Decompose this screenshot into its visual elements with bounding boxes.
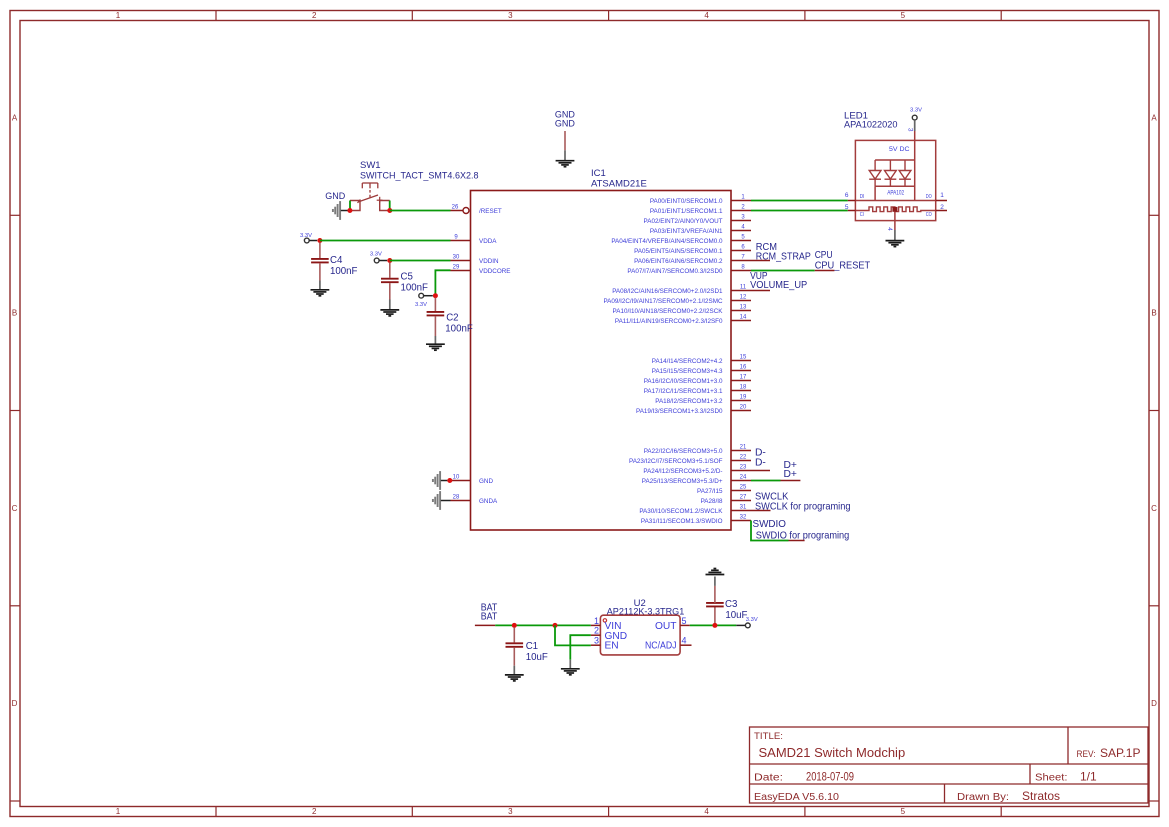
SW1 lever: [358, 195, 379, 203]
ground at LED1: [886, 241, 905, 247]
svg-text:C: C: [1151, 504, 1157, 513]
svg-text:VOLUME_UP: VOLUME_UP: [750, 280, 807, 291]
svg-text:C4: C4: [330, 255, 343, 266]
svg-text:PA22/I2C/I6/SERCOM3+5.0: PA22/I2C/I6/SERCOM3+5.0: [644, 448, 723, 455]
junction C2 top: [433, 293, 438, 298]
row labels left: [12, 113, 18, 708]
IC1 right pin names: [603, 198, 723, 525]
voltage regulator U2 body: [600, 615, 680, 655]
svg-text:4: 4: [704, 807, 709, 816]
row tick marks left: [10, 215, 20, 801]
svg-text:VDDIN: VDDIN: [479, 258, 499, 265]
svg-text:PA03/EINT3/VREFA/AIN1: PA03/EINT3/VREFA/AIN1: [650, 228, 723, 235]
svg-text:PA05/EINT5/AIN5/SERCOM0.1: PA05/EINT5/AIN5/SERCOM0.1: [634, 248, 723, 255]
svg-text:SAMD21 Switch Modchip: SAMD21 Switch Modchip: [759, 745, 906, 760]
svg-text:PA25/I13/SERCOM3+5.3/D+: PA25/I13/SERCOM3+5.3/D+: [642, 478, 723, 485]
ground signal at IC pin 10: [433, 471, 440, 490]
switch SW1: [360, 160, 479, 182]
junction SW1 pin2: [387, 208, 392, 213]
GND net flag top center: [555, 110, 576, 161]
svg-text:C3: C3: [725, 599, 737, 610]
svg-text:10uF: 10uF: [725, 610, 747, 621]
svg-text:PA11/I11/AIN19/SERCOM0+2.3/I2S: PA11/I11/AIN19/SERCOM0+2.3/I2SF0: [615, 318, 723, 325]
capacitor C3: [706, 577, 747, 624]
junction pin 10: [447, 478, 452, 483]
LED diode 2: [885, 160, 897, 186]
svg-text:30: 30: [453, 255, 460, 261]
LED1 pin 3 wire: [914, 131, 916, 201]
3.3V terminal at C5: [370, 251, 387, 263]
wire OUT: [690, 624, 737, 626]
svg-text:PA06/EINT6/AIN6/SERCOM0.2: PA06/EINT6/AIN6/SERCOM0.2: [634, 258, 723, 265]
wire EN loop: [555, 625, 591, 645]
svg-text:2: 2: [594, 626, 599, 636]
svg-text:3: 3: [508, 11, 513, 20]
svg-text:1: 1: [940, 192, 944, 199]
svg-text:B: B: [1151, 309, 1156, 318]
svg-text:PA28/I8: PA28/I8: [701, 498, 723, 505]
svg-text:C5: C5: [401, 271, 413, 282]
svg-text:PA02/EINT2/AIN0/Y0/VOUT: PA02/EINT2/AIN0/Y0/VOUT: [644, 218, 723, 225]
svg-text:11: 11: [740, 285, 747, 291]
svg-text:PA14/I14/SERCOM2+4.2: PA14/I14/SERCOM2+4.2: [652, 358, 723, 365]
junction C5 top: [387, 258, 392, 263]
svg-text:ATSAMD21E: ATSAMD21E: [591, 179, 647, 190]
svg-text:15: 15: [740, 355, 747, 361]
svg-text:CI: CI: [860, 212, 864, 218]
svg-text:29: 29: [453, 265, 460, 271]
LED diode 1: [869, 160, 881, 186]
LED1 CO stub: [936, 210, 947, 212]
svg-text:EasyEDA V5.6.10: EasyEDA V5.6.10: [754, 792, 839, 803]
svg-text:100nF: 100nF: [330, 266, 358, 277]
svg-text:2018-07-09: 2018-07-09: [806, 772, 854, 784]
wire GND pin2: [570, 635, 591, 660]
svg-text:4: 4: [886, 227, 893, 231]
svg-text:GND: GND: [555, 119, 576, 129]
LED1 DI stub: [848, 200, 856, 202]
3.3V terminal at OUT: [745, 617, 757, 628]
LED1 DO stub: [936, 200, 947, 202]
title block text: [754, 731, 1140, 803]
title block: [750, 727, 1149, 803]
svg-text:18: 18: [740, 385, 747, 391]
wire BAT to VIN: [495, 624, 591, 626]
U2 pin stubs: [591, 625, 692, 645]
column tick marks bottom: [216, 807, 1001, 817]
svg-text:PA27/I15: PA27/I15: [697, 488, 723, 495]
svg-text:3: 3: [594, 636, 599, 646]
svg-text:3.3V: 3.3V: [910, 108, 922, 114]
wire black to pin 28: [441, 500, 451, 502]
ground at C5: [380, 310, 399, 316]
svg-text:PA31/I11/SECOM1.3/SWDIO: PA31/I11/SECOM1.3/SWDIO: [641, 518, 723, 525]
capacitor C1: [506, 627, 548, 674]
capacitor C5: [381, 263, 428, 310]
svg-text:1: 1: [594, 616, 599, 626]
svg-text:GND: GND: [479, 478, 493, 485]
svg-text:GNDA: GNDA: [479, 498, 498, 505]
svg-text:A: A: [1151, 113, 1157, 122]
svg-text:EN: EN: [605, 641, 619, 652]
wire pin 2 to LED CI: [751, 210, 848, 212]
svg-text:/RESET: /RESET: [479, 208, 502, 215]
wire pin 24 D+: [751, 480, 800, 482]
junction C3 bottom: [712, 623, 717, 628]
svg-text:GND: GND: [325, 191, 346, 201]
svg-text:D+: D+: [784, 469, 797, 480]
LED1 resistor zigzag CI-CO: [855, 207, 935, 212]
svg-text:PA07/I7/AIN7/SERCOM0.3/I2SD0: PA07/I7/AIN7/SERCOM0.3/I2SD0: [627, 268, 723, 275]
svg-text:TITLE:: TITLE:: [754, 731, 783, 741]
svg-text:1: 1: [116, 11, 121, 20]
wire black to 3.3V terminal: [736, 624, 745, 626]
svg-text:B: B: [12, 309, 17, 318]
SW1 left contact: [350, 201, 360, 211]
svg-text:PA00/EINT0/SERCOM1.0: PA00/EINT0/SERCOM1.0: [650, 198, 723, 205]
SW1 fixed contact mark: [377, 197, 383, 203]
svg-text:31: 31: [740, 505, 747, 511]
svg-text:Sheet:: Sheet:: [1035, 773, 1068, 784]
svg-text:SAP.1P: SAP.1P: [1100, 746, 1140, 760]
ground above C3: [706, 569, 725, 575]
svg-text:Drawn By:: Drawn By:: [957, 792, 1009, 803]
svg-text:100nF: 100nF: [401, 282, 429, 293]
svg-text:PA19/I3/SERCOM1+3.3/I2SD0: PA19/I3/SERCOM1+3.3/I2SD0: [636, 408, 723, 415]
svg-text:VDDA: VDDA: [479, 238, 497, 245]
svg-text:23: 23: [740, 465, 747, 471]
LED1 gnd stem gray: [894, 230, 896, 240]
ground signal at SW1: [333, 201, 340, 220]
svg-text:26: 26: [452, 205, 459, 211]
capacitor C4: [311, 243, 357, 290]
svg-text:6: 6: [845, 192, 849, 199]
LED1 center junction square: [892, 207, 897, 212]
3.3V terminal at LED1: [910, 108, 922, 131]
wire black gnd to junction: [341, 210, 348, 212]
svg-text:16: 16: [740, 365, 747, 371]
svg-text:1/1: 1/1: [1080, 770, 1097, 784]
column labels top: [116, 11, 906, 20]
wire 3.3V to VDDA pin 9: [320, 240, 451, 242]
LED1 CI stub: [848, 210, 856, 212]
net label BAT: [481, 603, 498, 623]
svg-text:PA09/I2C/I9/AIN17/SERCOM0+2.1/: PA09/I2C/I9/AIN17/SERCOM0+2.1/I2SMC: [603, 298, 723, 305]
wire black to pin 10: [441, 480, 448, 482]
svg-text:CO: CO: [926, 212, 932, 218]
svg-text:3.3V: 3.3V: [746, 617, 758, 623]
3.3V terminal at C4: [300, 233, 317, 243]
svg-text:4: 4: [704, 11, 709, 20]
svg-text:Stratos: Stratos: [1022, 789, 1060, 803]
U2 pin1 indicator: [603, 619, 606, 622]
SW1 right contact: [380, 201, 390, 211]
svg-text:PA30/I10/SECOM1.2/SWCLK: PA30/I10/SECOM1.2/SWCLK: [639, 508, 723, 515]
svg-text:21: 21: [740, 445, 747, 451]
svg-text:DO: DO: [926, 194, 932, 200]
svg-text:OUT: OUT: [655, 621, 677, 632]
ground at C1: [505, 675, 524, 681]
svg-text:24: 24: [740, 475, 747, 481]
svg-text:C1: C1: [526, 641, 538, 652]
svg-text:3.3V: 3.3V: [415, 302, 427, 308]
svg-text:5: 5: [682, 616, 687, 626]
svg-text:REV:: REV:: [1077, 749, 1096, 760]
svg-text:PA23/I2C/I7/SERCOM3+5.1/SOF: PA23/I2C/I7/SERCOM3+5.1/SOF: [629, 458, 723, 465]
LED1 labels: [844, 111, 898, 131]
IC1 left pin names: [479, 208, 511, 505]
svg-text:22: 22: [740, 455, 747, 461]
svg-text:3: 3: [508, 807, 513, 816]
LED1 DI-DO row line: [855, 200, 935, 202]
svg-text:12: 12: [740, 295, 747, 301]
junction C1 top: [512, 623, 517, 628]
wire BAT stub red: [475, 624, 495, 626]
3.3V terminal at C2: [415, 293, 433, 307]
capacitor C2: [427, 298, 473, 344]
LED1 cathode bus: [875, 185, 915, 187]
wire pin 32 SWDIO: [751, 521, 805, 541]
LED1 pin 4 lead down: [894, 212, 896, 230]
ground signal at IC pin 28: [433, 491, 440, 510]
svg-text:SWITCH_TACT_SMT4.6X2.8: SWITCH_TACT_SMT4.6X2.8: [360, 171, 479, 182]
svg-text:32: 32: [740, 515, 747, 521]
svg-text:PA15/I15/SERCOM3+4.3: PA15/I15/SERCOM3+4.3: [652, 368, 723, 375]
svg-text:100nF: 100nF: [445, 324, 473, 335]
LED diode 3: [899, 160, 911, 186]
svg-text:2: 2: [312, 11, 317, 20]
svg-text:14: 14: [740, 315, 747, 321]
svg-text:20: 20: [740, 405, 747, 411]
svg-text:SW1: SW1: [360, 160, 381, 171]
svg-text:3: 3: [906, 128, 913, 132]
op-amp U1 : IC1 body: [471, 191, 732, 531]
svg-text:10: 10: [453, 475, 460, 481]
wire 3.3V to VDDIN pin 30: [390, 260, 451, 262]
IC1 right pin numbers: [740, 195, 747, 521]
svg-text:13: 13: [740, 305, 747, 311]
svg-text:5: 5: [901, 11, 906, 20]
svg-text:SWDIO: SWDIO: [753, 519, 787, 530]
svg-text:NC/ADJ: NC/ADJ: [645, 641, 677, 652]
svg-text:C: C: [12, 504, 18, 513]
U2 pin names: [605, 621, 677, 652]
svg-text:28: 28: [453, 495, 460, 501]
svg-text:1: 1: [116, 807, 121, 816]
LED1 anode bus: [875, 159, 915, 161]
wire pin 1 to LED DI: [751, 200, 848, 202]
svg-text:D: D: [1151, 699, 1157, 708]
row labels right: [1151, 113, 1157, 708]
ground top center: [556, 161, 575, 167]
LED1 pin numbers: [845, 192, 944, 211]
LED1 bus drop: [874, 186, 876, 200]
svg-text:SWCLK for programing: SWCLK for programing: [755, 502, 851, 513]
svg-text:19: 19: [740, 395, 747, 401]
svg-text:PA01/EINT1/SERCOM1.1: PA01/EINT1/SERCOM1.1: [650, 208, 723, 215]
svg-text:27: 27: [740, 495, 747, 501]
IC1 reference label: [591, 168, 647, 190]
LED1 pin texts: [860, 194, 932, 218]
svg-text:3.3V: 3.3V: [370, 251, 382, 257]
svg-text:5V DC: 5V DC: [889, 146, 910, 153]
svg-text:PA16/I2C/I0/SERCOM1+3.0: PA16/I2C/I0/SERCOM1+3.0: [644, 378, 723, 385]
column labels bottom: [116, 807, 906, 816]
wire SW1 to RESET pin 26: [390, 210, 451, 212]
IC1 /RESET inverting bubble pin 26: [463, 208, 469, 214]
svg-text:PA17/I2C/I1/SERCOM1+3.1: PA17/I2C/I1/SERCOM1+3.1: [644, 388, 723, 395]
junction C4 top: [317, 238, 322, 243]
svg-text:25: 25: [740, 485, 747, 491]
IC1 left pin stubs: [451, 211, 471, 501]
svg-text:5: 5: [901, 807, 906, 816]
svg-text:Date:: Date:: [754, 773, 783, 784]
svg-text:PA24/I12/SERCOM3+5.2/D-: PA24/I12/SERCOM3+5.2/D-: [643, 468, 722, 475]
LED1 body: [855, 140, 935, 220]
U2 gnd stem: [569, 660, 571, 669]
U2 pin numbers: [594, 616, 687, 646]
svg-text:PA08/I2C/AIN16/SERCOM0+2.0/I2S: PA08/I2C/AIN16/SERCOM0+2.0/I2SD1: [612, 288, 723, 295]
svg-text:PA04/EINT4/VREFB/AIN4/SERCOM0.: PA04/EINT4/VREFB/AIN4/SERCOM0.0: [611, 238, 723, 245]
row tick marks right: [1149, 215, 1159, 801]
svg-text:D-: D-: [755, 458, 766, 469]
column tick marks top: [216, 11, 1001, 21]
svg-text:APA1022020: APA1022020: [844, 119, 898, 130]
SW1 actuator bracket: [362, 183, 378, 198]
svg-text:DI: DI: [860, 194, 865, 200]
svg-text:4: 4: [682, 636, 687, 646]
svg-text:D: D: [12, 699, 18, 708]
ground at U2: [561, 669, 580, 675]
IC1 left pin numbers: [452, 205, 460, 501]
svg-text:BAT: BAT: [481, 611, 498, 622]
svg-text:RCM_STRAP: RCM_STRAP: [756, 251, 811, 262]
svg-text:APA102: APA102: [887, 190, 904, 197]
wire pin 8 CPU_RESET: [751, 270, 834, 272]
ground at C2: [426, 344, 445, 350]
wire VDDCORE pin 29 to C2: [435, 270, 450, 295]
svg-text:10uF: 10uF: [526, 652, 548, 663]
svg-text:PA10/I10/AIN18/SERCOM0+2.2/I2S: PA10/I10/AIN18/SERCOM0+2.2/I2SCK: [613, 308, 724, 315]
svg-text:IC1: IC1: [591, 168, 606, 179]
svg-text:PA18/I2/SERCOM1+3.2: PA18/I2/SERCOM1+3.2: [655, 398, 723, 405]
svg-text:C2: C2: [446, 313, 458, 324]
svg-text:17: 17: [740, 375, 747, 381]
ground at C4: [311, 290, 330, 296]
svg-text:VDDCORE: VDDCORE: [479, 268, 511, 275]
IC1 right pin stubs: [731, 201, 771, 521]
U2 labels: [607, 598, 685, 618]
svg-text:2: 2: [312, 807, 317, 816]
junction SW1 pin1: [347, 208, 352, 213]
junction EN tap: [553, 623, 558, 628]
svg-text:A: A: [12, 113, 18, 122]
